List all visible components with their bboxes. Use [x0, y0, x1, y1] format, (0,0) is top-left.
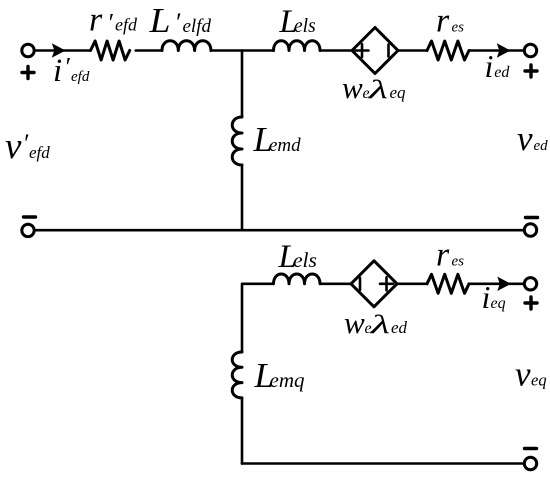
svg-text:es: es	[452, 254, 465, 270]
bottom bus of d-axis	[36, 229, 523, 232]
label ieq	[482, 279, 506, 315]
wire top-left to resistor	[36, 49, 89, 52]
svg-text:L: L	[148, 1, 170, 40]
minus terminal bottom-right d	[526, 216, 538, 219]
label veq	[515, 355, 547, 394]
U1 minus bar	[387, 45, 390, 57]
minus terminal bottom-left d	[24, 215, 36, 218]
plus terminal top-right	[525, 65, 537, 77]
label ved	[517, 119, 548, 158]
terminal bottom-left d	[22, 224, 34, 236]
label v'efd	[5, 126, 50, 167]
svg-text:ed: ed	[534, 138, 549, 154]
svg-text:w: w	[344, 305, 365, 340]
label Lels top	[279, 4, 316, 40]
terminal right q plus	[524, 278, 536, 290]
label L'elfd	[148, 1, 211, 40]
svg-text:v: v	[517, 119, 533, 158]
wire Lels to source q	[320, 282, 351, 285]
resistor res top	[427, 41, 469, 60]
svg-text:r: r	[89, 2, 103, 39]
svg-text:eq: eq	[390, 83, 407, 102]
current arrow i'efd	[52, 43, 66, 57]
svg-text:i: i	[485, 48, 494, 84]
wire source to res q	[397, 282, 427, 285]
U1 plus mark	[356, 44, 369, 57]
svg-text:efd: efd	[29, 143, 50, 162]
terminal top-left	[22, 44, 34, 56]
svg-text:r: r	[436, 3, 450, 40]
svg-text:′: ′	[107, 9, 113, 38]
terminal bottom-right q	[524, 457, 536, 469]
wire inductor to node and onward	[211, 49, 274, 52]
label Lemq	[254, 356, 305, 395]
svg-text:w: w	[342, 70, 363, 105]
current arrow ied	[497, 43, 511, 57]
plus terminal right q	[525, 297, 537, 309]
svg-text:′: ′	[175, 8, 181, 37]
label Lemd	[253, 120, 302, 159]
svg-text:els: els	[293, 248, 317, 272]
svg-text:emd: emd	[269, 135, 301, 156]
inductor Lemq (vertical)	[232, 352, 242, 398]
svg-text:efd: efd	[115, 15, 138, 35]
label ied	[485, 48, 511, 84]
svg-text:els: els	[294, 16, 316, 37]
svg-text:elfd: elfd	[183, 16, 212, 37]
node A vertical wire down	[241, 51, 244, 118]
svg-text:eq: eq	[531, 371, 547, 390]
svg-text:v: v	[5, 126, 22, 167]
svg-text:λ: λ	[369, 310, 390, 339]
svg-text:ed: ed	[494, 64, 510, 81]
label we lambda ed	[344, 305, 408, 340]
inductor Lels top	[274, 41, 321, 51]
wire resistor to inductor	[136, 49, 162, 52]
svg-text:es: es	[452, 20, 465, 36]
label res bottom	[436, 237, 464, 274]
minus terminal bottom-right q	[525, 447, 537, 450]
inductor Lemd (vertical)	[232, 117, 242, 165]
svg-text:λ: λ	[367, 75, 388, 104]
svg-text:r: r	[436, 237, 450, 274]
resistor R r'efd	[91, 41, 130, 60]
inductor Lels bottom	[274, 274, 321, 284]
label we lambda eq	[342, 70, 406, 105]
wire res to terminal	[469, 49, 523, 52]
svg-text:i: i	[482, 279, 491, 315]
svg-text:v: v	[515, 355, 531, 394]
svg-text:emq: emq	[270, 368, 305, 392]
label r'efd	[89, 2, 138, 39]
dependent source U2 diamond	[351, 261, 397, 307]
wire Lemd to bottom bus	[241, 165, 244, 230]
wire Lemq to bottom bus q	[241, 398, 244, 464]
terminal bottom-right d	[524, 224, 536, 236]
label Lels bottom	[278, 239, 317, 275]
label res top	[436, 3, 464, 40]
U2 minus bar	[359, 278, 362, 290]
svg-text:′: ′	[23, 129, 29, 158]
current arrow ieq	[497, 277, 511, 291]
q-axis corner wire	[242, 284, 274, 352]
wire res to terminal q	[469, 282, 523, 285]
plus terminal top-left	[22, 67, 34, 79]
svg-text:ed: ed	[391, 318, 408, 337]
resistor res bottom	[427, 274, 469, 293]
svg-text:efd: efd	[71, 69, 90, 85]
wire Lels to source	[320, 49, 352, 52]
dependent source U1 diamond	[352, 28, 398, 74]
svg-text:eq: eq	[491, 295, 506, 312]
terminal top-right	[524, 44, 536, 56]
wire source to resistor res	[398, 49, 427, 52]
label i'efd	[53, 53, 90, 90]
bottom bus q	[242, 462, 523, 465]
inductor L'elfd	[162, 41, 211, 51]
svg-text:′: ′	[64, 53, 70, 82]
svg-text:i: i	[53, 53, 62, 89]
U2 plus mark	[380, 277, 393, 290]
